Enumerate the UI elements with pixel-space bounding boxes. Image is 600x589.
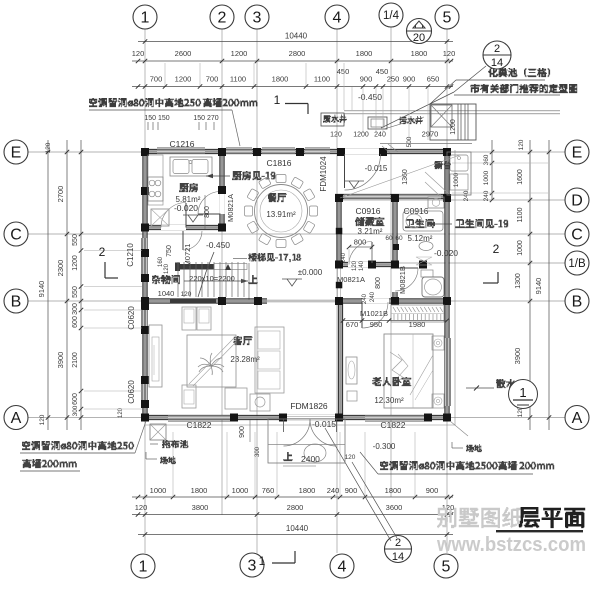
svg-text:M0821A: M0821A bbox=[226, 194, 235, 222]
wall under-stair closet top bbox=[175, 264, 214, 270]
svg-text:240: 240 bbox=[362, 293, 368, 304]
sewer pipe double line bbox=[344, 110, 560, 112]
door opening FDM1024 entry north bbox=[345, 149, 380, 154]
axis line A horizontal bbox=[28, 417, 565, 419]
grid bubble 3 top bbox=[245, 5, 269, 29]
grid bubble A right bbox=[565, 406, 589, 430]
grid bubble 3 bottom bbox=[240, 553, 264, 577]
svg-text:120: 120 bbox=[518, 139, 525, 150]
door M1021B bedroom leaf+arc bbox=[361, 302, 363, 328]
kitchen fridge bbox=[151, 209, 169, 226]
svg-text:150 270: 150 270 bbox=[193, 115, 218, 122]
svg-text:120: 120 bbox=[135, 503, 148, 512]
svg-text:3900: 3900 bbox=[56, 352, 65, 369]
svg-text:60: 60 bbox=[385, 235, 393, 242]
level mark kitchen bbox=[188, 215, 198, 222]
svg-text:1300: 1300 bbox=[515, 273, 522, 289]
svg-text:FDM1024: FDM1024 bbox=[319, 156, 328, 192]
dim line row2 top bbox=[132, 60, 453, 62]
grid bubble E right bbox=[565, 140, 589, 164]
svg-text:300: 300 bbox=[72, 405, 79, 416]
svg-text:1800: 1800 bbox=[191, 486, 208, 495]
B wall dark under stairs bbox=[170, 299, 216, 304]
dim line row3 top bbox=[132, 86, 453, 88]
note aircon hole top-left bbox=[89, 98, 258, 107]
svg-text:1100: 1100 bbox=[314, 75, 330, 84]
stair break line bbox=[198, 272, 206, 297]
svg-text:M0821B: M0821B bbox=[398, 266, 407, 294]
leader line from callout 2/14 bbox=[454, 66, 486, 92]
svg-text:23.28m²: 23.28m² bbox=[230, 355, 260, 364]
bedroom nightstands bbox=[432, 336, 444, 350]
note aircon hole bottom-left line1 bbox=[22, 441, 134, 450]
svg-text:C1816: C1816 bbox=[266, 158, 291, 168]
axis line grid 2 vertical bbox=[221, 29, 223, 515]
grid bubble 5 bottom bbox=[434, 554, 458, 578]
axis line grid 4 vertical bbox=[336, 29, 338, 553]
svg-text:670: 670 bbox=[346, 320, 359, 329]
door M0821B bath leaf+arc bbox=[395, 267, 418, 269]
bath small shelf bbox=[421, 270, 433, 277]
svg-text:120: 120 bbox=[181, 291, 192, 298]
label dining bbox=[268, 193, 287, 202]
svg-text:2: 2 bbox=[99, 245, 106, 259]
dim line row2 bottom bbox=[132, 514, 453, 516]
window bedroom east wall bbox=[445, 338, 449, 406]
extension stubs bottom band bbox=[172, 432, 174, 496]
window C0916b bath north bbox=[399, 194, 441, 198]
grid bubble 4 top bbox=[325, 5, 349, 29]
svg-text:C0620: C0620 bbox=[127, 380, 136, 404]
axis line D horizontal bbox=[340, 199, 565, 201]
svg-text:1800: 1800 bbox=[356, 49, 373, 58]
svg-text:120: 120 bbox=[443, 49, 456, 58]
living side table bbox=[250, 394, 270, 411]
svg-text:120: 120 bbox=[39, 414, 46, 425]
axis line E horizontal bbox=[28, 151, 565, 153]
svg-text:550: 550 bbox=[72, 286, 79, 298]
svg-text:2: 2 bbox=[395, 537, 401, 549]
svg-text:C1216: C1216 bbox=[169, 139, 194, 149]
svg-text:2300: 2300 bbox=[56, 260, 65, 277]
svg-text:1360: 1360 bbox=[402, 169, 409, 185]
svg-text:-0.020: -0.020 bbox=[174, 203, 198, 213]
svg-text:1800: 1800 bbox=[299, 486, 316, 495]
svg-text:2600: 2600 bbox=[175, 49, 192, 58]
dim line axis spans left bbox=[66, 140, 68, 430]
svg-text:4: 4 bbox=[333, 9, 342, 26]
svg-text:2800: 2800 bbox=[287, 503, 304, 512]
watermark CJK gray bbox=[437, 507, 523, 528]
svg-text:500: 500 bbox=[406, 136, 413, 147]
terrace ellipse mark bbox=[304, 444, 326, 462]
window C1216 kitchen north bbox=[157, 149, 205, 153]
stair up arrow bbox=[184, 280, 248, 282]
living armchairs top bbox=[182, 307, 196, 330]
bedroom dresser bbox=[346, 357, 357, 384]
door M0821A storage leaf+arc bbox=[371, 242, 373, 265]
svg-text:600: 600 bbox=[72, 316, 79, 328]
svg-text:-0.015: -0.015 bbox=[312, 419, 336, 429]
grid bubble 1/B right bbox=[565, 251, 589, 275]
leader kitchen see-19 bbox=[206, 175, 230, 177]
svg-text:C0620: C0620 bbox=[127, 306, 136, 330]
label up 2400 bbox=[283, 452, 293, 461]
title floor plan bbox=[519, 507, 585, 528]
svg-text:1/B: 1/B bbox=[568, 258, 586, 270]
door opening FDM1826 living south bbox=[283, 415, 337, 420]
svg-text:1980: 1980 bbox=[409, 320, 426, 329]
apron line bottom bbox=[145, 424, 455, 426]
grid bubble A left bbox=[4, 406, 28, 430]
svg-text:2800: 2800 bbox=[289, 49, 306, 58]
bath washer bbox=[428, 197, 444, 208]
door FDM1024 leaf+arc bbox=[344, 154, 346, 188]
open corridor lines grid4 between storage and B bbox=[337, 266, 339, 301]
svg-text:E: E bbox=[572, 144, 583, 161]
apron corner diagonal bbox=[450, 421, 468, 436]
svg-text:2400: 2400 bbox=[301, 454, 320, 464]
svg-text:2700: 2700 bbox=[56, 186, 65, 203]
svg-text:1200: 1200 bbox=[72, 255, 79, 271]
living tv stand bbox=[149, 325, 162, 387]
svg-text:FDM1826: FDM1826 bbox=[290, 401, 328, 411]
dims storage bbox=[349, 246, 372, 248]
svg-text:120: 120 bbox=[442, 503, 455, 512]
grid bubble C right bbox=[565, 222, 589, 246]
svg-text:1000: 1000 bbox=[517, 240, 524, 256]
bedroom wardrobe bbox=[391, 305, 444, 322]
svg-text:240: 240 bbox=[370, 291, 376, 302]
porch edge line top right bbox=[380, 143, 472, 145]
svg-text:1: 1 bbox=[519, 385, 526, 400]
wall right exterior (east) bbox=[446, 150, 449, 420]
note septic tank line2 bbox=[470, 84, 577, 93]
svg-text:14: 14 bbox=[491, 57, 503, 69]
svg-text:800: 800 bbox=[375, 277, 382, 289]
kitchen counter west bbox=[148, 155, 163, 205]
dim line 9140 left bbox=[47, 140, 49, 430]
label ground right bbox=[466, 444, 482, 452]
svg-text:E: E bbox=[11, 144, 22, 161]
detail index circle 20 with roof symbol bbox=[407, 19, 432, 44]
svg-text:360: 360 bbox=[483, 154, 490, 165]
stair treads bbox=[177, 262, 179, 297]
svg-text:-0.015: -0.015 bbox=[365, 164, 388, 173]
svg-text:1: 1 bbox=[141, 9, 150, 26]
wall B bedroom north bbox=[335, 300, 450, 303]
wall bedroom west bbox=[339, 301, 342, 420]
wall B living north bbox=[142, 300, 268, 303]
apron line right bbox=[454, 150, 456, 425]
svg-text:120: 120 bbox=[132, 49, 145, 58]
detail circle 1 apron bbox=[509, 380, 538, 409]
extension stubs right band bbox=[452, 162, 548, 164]
svg-text:600: 600 bbox=[72, 393, 79, 405]
svg-text:1200: 1200 bbox=[231, 49, 248, 58]
bath washbasin oval bbox=[419, 242, 433, 251]
septic tank plan rectangle bbox=[430, 104, 476, 140]
grid bubble C left bbox=[4, 222, 28, 246]
svg-text:1800: 1800 bbox=[385, 486, 402, 495]
svg-text:1000: 1000 bbox=[150, 486, 167, 495]
leader lines septic to note bbox=[381, 92, 454, 128]
svg-text:M0821A: M0821A bbox=[337, 275, 365, 284]
svg-text:2970: 2970 bbox=[422, 130, 439, 139]
svg-text:10440: 10440 bbox=[285, 32, 308, 41]
label counter bbox=[434, 161, 451, 169]
dim line row1 bottom bbox=[132, 496, 453, 498]
svg-text:120: 120 bbox=[352, 260, 358, 271]
svg-text:1600: 1600 bbox=[517, 169, 524, 185]
sewage well box bbox=[368, 117, 387, 129]
bedroom bed bbox=[384, 334, 433, 408]
svg-text:140: 140 bbox=[359, 260, 365, 271]
svg-text:1000: 1000 bbox=[453, 172, 460, 187]
stair tread band overlay bbox=[214, 264, 247, 270]
grid bubble 1 bottom bbox=[131, 554, 155, 578]
dim line total 10440 top bbox=[138, 41, 453, 43]
svg-text:120: 120 bbox=[330, 132, 342, 139]
svg-text:-0.450: -0.450 bbox=[358, 92, 382, 102]
label closet bbox=[152, 275, 180, 284]
axis line B horizontal bbox=[28, 300, 565, 302]
terrace steps bbox=[268, 419, 345, 463]
note aircon hole bottom-right bbox=[380, 461, 554, 470]
svg-text:300: 300 bbox=[255, 446, 261, 457]
svg-text:12.30m²: 12.30m² bbox=[374, 396, 404, 405]
columns structural bbox=[141, 148, 149, 156]
svg-text:2: 2 bbox=[493, 242, 500, 256]
svg-text:250: 250 bbox=[387, 75, 400, 84]
svg-text:C0916: C0916 bbox=[355, 206, 380, 216]
svg-text:5: 5 bbox=[442, 558, 451, 575]
svg-text:3600: 3600 bbox=[386, 503, 403, 512]
svg-text:300: 300 bbox=[72, 303, 79, 315]
svg-text:240: 240 bbox=[341, 252, 347, 263]
grid bubble B left bbox=[4, 289, 28, 313]
label living bbox=[233, 336, 253, 345]
window C1816 dining north part2 bbox=[305, 149, 330, 153]
bathtub horizontal bbox=[403, 211, 443, 231]
kitchen sink bbox=[170, 157, 212, 176]
svg-text:120: 120 bbox=[45, 142, 52, 153]
svg-text:1800: 1800 bbox=[272, 75, 289, 84]
extension stubs left band bbox=[84, 250, 142, 252]
svg-text:M1021B: M1021B bbox=[360, 309, 388, 318]
svg-text:2100: 2100 bbox=[72, 352, 79, 368]
svg-text:700: 700 bbox=[206, 75, 219, 84]
svg-text:3.21m²: 3.21m² bbox=[358, 227, 383, 236]
mop pool bbox=[150, 424, 166, 440]
grid bubble B right bbox=[565, 289, 589, 313]
svg-text:220x10=2200: 220x10=2200 bbox=[189, 274, 235, 283]
window C1210 west stairs bbox=[143, 238, 147, 278]
wall grid4 storage/bedroom west bbox=[338, 197, 341, 267]
svg-text:3900: 3900 bbox=[513, 348, 522, 365]
dim line axis spans right bbox=[529, 140, 531, 430]
level mark dining bbox=[287, 279, 297, 286]
grid bubble 1 top bbox=[133, 5, 157, 29]
living chair bottom middle bbox=[225, 388, 247, 409]
svg-text:900: 900 bbox=[403, 75, 416, 84]
label apron bbox=[496, 379, 516, 388]
svg-text:B: B bbox=[572, 293, 583, 310]
svg-text:900: 900 bbox=[345, 486, 358, 495]
svg-text:A: A bbox=[11, 410, 22, 427]
window C0916a storage north bbox=[344, 194, 390, 198]
living armchair bottom bbox=[182, 385, 196, 408]
svg-text:5: 5 bbox=[443, 9, 452, 26]
svg-text:www.bstzcs.com: www.bstzcs.com bbox=[436, 534, 586, 556]
wall left exterior (west) bbox=[144, 150, 147, 420]
axis line grid 1 vertical bbox=[144, 29, 146, 553]
grid bubble E left bbox=[4, 140, 28, 164]
label bedroom bbox=[372, 377, 411, 386]
opening B wall thin lines bbox=[267, 299, 335, 301]
svg-text:20: 20 bbox=[413, 32, 425, 44]
svg-text:240: 240 bbox=[483, 190, 490, 201]
axis line grid 5 vertical bbox=[446, 29, 448, 553]
dim line 9140 right bbox=[548, 140, 550, 430]
svg-text:240: 240 bbox=[463, 190, 470, 201]
bath floor drain bbox=[416, 257, 432, 265]
label bathroom bbox=[405, 219, 434, 228]
living sofa east bbox=[255, 327, 284, 393]
title underline bbox=[496, 530, 583, 532]
waste water well box bbox=[321, 113, 344, 126]
door kitchen south leaf+arc bbox=[185, 203, 187, 228]
svg-text:60: 60 bbox=[395, 235, 403, 242]
svg-text:4: 4 bbox=[338, 558, 347, 575]
svg-text:2: 2 bbox=[218, 9, 227, 26]
label mop pool bbox=[162, 440, 188, 448]
svg-text:1: 1 bbox=[259, 554, 266, 568]
note aircon hole bottom-left line2 bbox=[22, 459, 77, 468]
axis line grid 3 vertical bbox=[256, 29, 258, 553]
svg-text:1/4: 1/4 bbox=[383, 10, 400, 22]
dim line sub spans right E-D bbox=[491, 140, 493, 200]
svg-text:3800: 3800 bbox=[192, 503, 209, 512]
svg-text:1100: 1100 bbox=[517, 207, 524, 222]
wall A exterior (bottom) bbox=[142, 416, 451, 419]
label stairs see-17,18 bbox=[248, 253, 301, 262]
svg-text:1200: 1200 bbox=[353, 132, 369, 139]
svg-text:M0721: M0721 bbox=[183, 244, 192, 267]
svg-text:150 150: 150 150 bbox=[144, 115, 169, 122]
extension lines top dims bbox=[343, 63, 345, 110]
grid bubble 5 top bbox=[435, 5, 459, 29]
svg-text:3: 3 bbox=[248, 557, 257, 574]
svg-text:D: D bbox=[571, 192, 583, 209]
grid bubble 2 top bbox=[210, 5, 234, 29]
svg-text:C: C bbox=[571, 226, 583, 243]
detail callout circle 2/14 bottom bbox=[385, 536, 412, 563]
svg-text:13.91m²: 13.91m² bbox=[266, 210, 296, 219]
door opening slot closet bbox=[174, 226, 183, 230]
door M0821A kitchen leaf+arc bbox=[198, 213, 221, 215]
wall D storage/bath north bbox=[335, 195, 450, 198]
wall kitchen south bbox=[143, 226, 224, 229]
svg-text:-0.450: -0.450 bbox=[206, 240, 230, 250]
svg-text:1200: 1200 bbox=[175, 75, 192, 84]
svg-text:1: 1 bbox=[274, 93, 281, 107]
grid bubble D right bbox=[565, 188, 589, 212]
svg-text:1800: 1800 bbox=[411, 49, 428, 58]
label storage bbox=[355, 217, 385, 226]
grid bubble 1/4 top bbox=[379, 3, 403, 27]
axis line C horizontal bbox=[28, 233, 565, 235]
detail callout circle 2/14 top-right bbox=[483, 41, 511, 69]
sewage well label bbox=[399, 116, 423, 124]
svg-text:750: 750 bbox=[166, 245, 173, 257]
window C0620b west living bbox=[143, 380, 147, 404]
svg-text:950: 950 bbox=[370, 320, 383, 329]
svg-text:120: 120 bbox=[164, 263, 170, 274]
svg-text:900: 900 bbox=[239, 426, 246, 438]
axis line grid 1/4 vertical bbox=[390, 27, 392, 497]
outdoor counter bbox=[447, 152, 471, 195]
svg-text:900: 900 bbox=[360, 75, 373, 84]
svg-text:450: 450 bbox=[337, 67, 350, 76]
note septic tank line1 bbox=[488, 68, 550, 77]
svg-text:14: 14 bbox=[392, 551, 404, 563]
svg-text:800: 800 bbox=[354, 238, 367, 247]
window C1822 living south bbox=[168, 415, 232, 419]
svg-text:240: 240 bbox=[327, 486, 340, 495]
stair east stringer line bbox=[248, 263, 250, 301]
svg-text:1: 1 bbox=[139, 558, 148, 575]
svg-text:1200: 1200 bbox=[450, 119, 457, 135]
door M0721 closet leaf+arc bbox=[182, 231, 184, 250]
svg-text:650: 650 bbox=[427, 75, 440, 84]
svg-text:C: C bbox=[10, 226, 22, 243]
svg-text:1100: 1100 bbox=[230, 75, 246, 84]
svg-text:1000: 1000 bbox=[232, 486, 249, 495]
svg-text:1040: 1040 bbox=[158, 289, 175, 298]
svg-text:550: 550 bbox=[72, 234, 79, 246]
wall storage/bath divider bbox=[394, 197, 397, 267]
label ground left bbox=[160, 456, 176, 464]
svg-text:9140: 9140 bbox=[37, 281, 46, 298]
svg-text:760: 760 bbox=[262, 486, 275, 495]
leader bathroom see-19 bbox=[428, 223, 452, 225]
dims bedroom top bbox=[343, 320, 447, 322]
axis line 1/B horizontal bbox=[393, 262, 565, 264]
wall kitchen east (grid2) bbox=[221, 150, 224, 230]
kitchen stove bbox=[148, 177, 163, 201]
svg-text:C1210: C1210 bbox=[126, 243, 135, 267]
label kitchen bbox=[179, 183, 198, 192]
grid bubble 4 bottom bbox=[330, 554, 354, 578]
window dining north between grid2-3 bbox=[226, 149, 252, 153]
svg-text:3: 3 bbox=[253, 9, 262, 26]
dim line sub spans left bbox=[80, 140, 82, 430]
svg-text:120: 120 bbox=[345, 454, 356, 461]
living rug and plant bbox=[187, 335, 236, 387]
svg-text:±0.000: ±0.000 bbox=[298, 268, 323, 277]
leader lines steps to callout bbox=[325, 428, 391, 541]
level mark entry bbox=[349, 181, 359, 188]
svg-text:9140: 9140 bbox=[534, 278, 543, 295]
svg-text:900: 900 bbox=[426, 486, 439, 495]
wall storage south / hall bbox=[335, 263, 398, 266]
window C0620a west living bbox=[143, 306, 147, 330]
wall E exterior (top) bbox=[142, 150, 451, 153]
svg-text:700: 700 bbox=[150, 75, 163, 84]
svg-text:1000: 1000 bbox=[483, 170, 490, 185]
svg-text:-0.020: -0.020 bbox=[434, 248, 458, 258]
